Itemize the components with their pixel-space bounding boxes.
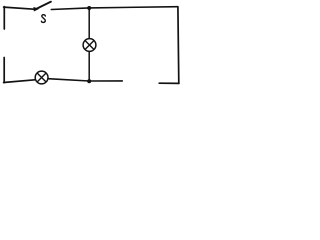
lamp L2 (middle) cross bbox=[85, 41, 94, 50]
lamp L2 (middle) circle bbox=[83, 39, 96, 52]
wire: middle lamp bottom lead bbox=[88, 51, 90, 81]
wire: bottom-left (corner to lamp) bbox=[4, 80, 35, 83]
wire: right vertical bbox=[177, 7, 180, 84]
lamp L1 (bottom) circle bbox=[35, 71, 48, 84]
lamp L1 (bottom) cross bbox=[37, 73, 46, 82]
node: bottom junction dot bbox=[87, 79, 91, 83]
wire: left vertical lower segment bbox=[3, 58, 5, 83]
switch S lever arm bbox=[37, 2, 51, 9]
wire: top from junction to right corner bbox=[89, 7, 178, 8]
wire: top from switch to junction bbox=[51, 8, 89, 10]
wire: bottom from lamp to junction bbox=[48, 79, 89, 81]
node: top junction dot bbox=[87, 6, 91, 10]
wire: left vertical upper segment bbox=[3, 7, 5, 29]
wire: bottom-right segment bbox=[159, 82, 179, 84]
label S (drawn as path to avoid font subpixel fringing) bbox=[41, 15, 45, 23]
wire: middle lamp top lead bbox=[88, 8, 90, 39]
wire: bottom from junction to open end bbox=[89, 80, 122, 82]
switch S pivot contact bbox=[34, 8, 38, 11]
wire: top-left horizontal (corner to switch) bbox=[4, 7, 34, 9]
